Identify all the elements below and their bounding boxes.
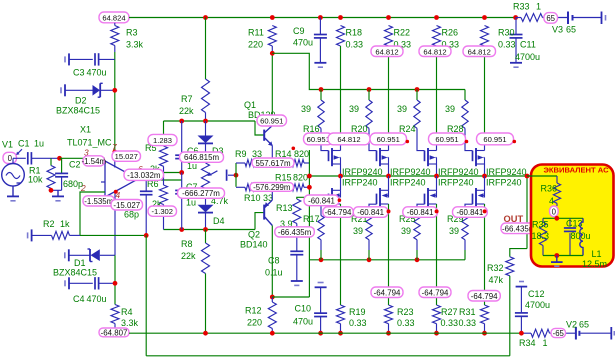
resistor R2 <box>31 229 33 241</box>
capacitor C11 <box>515 18 517 35</box>
svg-text:0.33: 0.33 <box>349 318 367 328</box>
resistor R17 39 gate lower <box>318 216 324 240</box>
V1 minus mark <box>17 182 22 184</box>
wire R22 to FET drain <box>388 46 390 144</box>
wire FET source to OUT bus <box>340 164 342 176</box>
R1-C2 ground <box>51 189 62 191</box>
svg-text:470u: 470u <box>87 68 107 78</box>
node -60.841 cell1 <box>304 195 339 206</box>
resistor R8 <box>205 230 207 244</box>
MOSFET IRFP9240 upper cell2 <box>369 144 377 151</box>
svg-text:-60.841: -60.841 <box>407 208 434 217</box>
svg-text:R30: R30 <box>498 28 515 38</box>
svg-text:1.283: 1.283 <box>153 136 172 145</box>
svg-text:C3: C3 <box>73 68 85 78</box>
bus junction R17 <box>319 257 324 262</box>
source V1 sine <box>2 164 25 187</box>
wire FET lower source down <box>484 204 486 305</box>
svg-text:820: 820 <box>293 172 308 182</box>
capacitor C13 <box>569 218 571 226</box>
svg-text:64.812: 64.812 <box>423 47 446 56</box>
svg-text:0: 0 <box>552 207 557 216</box>
capacitor C9 <box>319 18 321 35</box>
potentiometer X2 <box>202 163 210 189</box>
rail junction <box>203 331 208 336</box>
diode D3 <box>205 121 207 136</box>
MOSFET IRFP240 lower cell4 <box>484 176 486 190</box>
wire FET source to OUT bus <box>484 164 486 176</box>
V1 ground <box>12 186 14 196</box>
svg-text:-60.841: -60.841 <box>457 208 484 217</box>
svg-text:-65: -65 <box>553 329 565 338</box>
resistor R14 <box>292 160 304 167</box>
svg-text:557.617m: 557.617m <box>255 159 291 168</box>
resistor R24 39 gate upper <box>416 90 418 101</box>
svg-text:D4: D4 <box>213 216 225 226</box>
svg-text:220: 220 <box>248 40 263 50</box>
node -60.841 cell4 <box>453 207 488 218</box>
wire R5 top <box>163 121 165 134</box>
wire R11 junction to Q1 collector <box>271 53 273 125</box>
V3 ground <box>601 12 603 25</box>
node 0 label <box>3 152 17 163</box>
resistor R35 <box>542 218 544 222</box>
node -13.032m label <box>124 169 164 180</box>
svg-text:60.951: 60.951 <box>377 135 400 144</box>
capacitor C4 <box>68 277 70 289</box>
resistor R15 <box>292 184 304 191</box>
svg-text:0.33: 0.33 <box>459 318 477 328</box>
svg-text:-64.794: -64.794 <box>374 288 401 297</box>
rail junction <box>203 15 208 20</box>
svg-text:R19: R19 <box>349 307 366 317</box>
junction D2-column <box>112 88 117 93</box>
capacitor C6 <box>181 121 183 153</box>
svg-text:L1: L1 <box>592 249 602 259</box>
svg-text:BD140: BD140 <box>240 240 268 250</box>
junction wiper node <box>234 173 239 178</box>
svg-text:3.3k: 3.3k <box>126 40 144 50</box>
node 60.951 gate4 <box>477 133 514 145</box>
svg-text:64.812: 64.812 <box>337 135 360 144</box>
junction source-OUT <box>434 174 439 179</box>
svg-text:IRFP240: IRFP240 <box>486 178 522 188</box>
junction source resistor-rail <box>338 331 343 336</box>
svg-text:-1.535m: -1.535m <box>84 197 113 206</box>
svg-text:R35: R35 <box>532 219 549 229</box>
X2 wiper terminal <box>226 170 228 181</box>
svg-text:R11: R11 <box>248 28 264 38</box>
capacitor C10 <box>318 282 324 284</box>
wire FET lower source down <box>388 204 390 305</box>
MOSFET IRFP240 lower cell3 <box>436 176 438 190</box>
rail junction <box>386 15 391 20</box>
rail junction <box>513 15 518 20</box>
junction bias-C6 <box>179 119 184 124</box>
Q1 base wire <box>255 121 264 135</box>
svg-text:0.33: 0.33 <box>346 40 364 50</box>
svg-text:470u: 470u <box>87 294 107 304</box>
resistor R4 <box>111 305 119 324</box>
svg-text:IRFP240: IRFP240 <box>438 178 474 188</box>
bus junction R25 <box>415 257 420 262</box>
wire FET lower source down <box>340 204 342 305</box>
svg-text:-64.807: -64.807 <box>101 329 128 338</box>
resistor R20 39 gate upper <box>368 90 370 101</box>
svg-text:470u: 470u <box>293 317 313 327</box>
svg-text:22k: 22k <box>179 106 194 116</box>
node -64.794 label <box>323 207 354 218</box>
svg-text:-60.841: -60.841 <box>357 208 384 217</box>
wire OUT bus into box <box>527 175 557 177</box>
svg-text:C10: C10 <box>295 304 312 314</box>
MOSFET IRFP9240 upper cell1 <box>321 144 329 151</box>
junction source resistor-rail <box>386 331 391 336</box>
svg-text:2: 2 <box>80 183 86 193</box>
junction feedback-R2 <box>144 233 149 238</box>
svg-text:C12: C12 <box>528 289 545 299</box>
svg-text:1u: 1u <box>34 139 44 149</box>
label attach dot <box>338 198 342 202</box>
svg-text:3.3k: 3.3k <box>121 318 139 328</box>
label attach dot <box>387 209 391 213</box>
junction source-OUT <box>386 174 391 179</box>
Q1 emitter wire <box>271 146 273 164</box>
svg-text:D1: D1 <box>74 258 86 268</box>
wire R30 to FET drain <box>484 46 486 144</box>
resistor R29 39 gate lower <box>462 216 468 240</box>
svg-text:R13: R13 <box>276 203 293 213</box>
rail junction <box>338 15 343 20</box>
svg-text:0.33: 0.33 <box>498 40 516 50</box>
junction biasbot-C7 <box>179 227 184 232</box>
svg-text:7: 7 <box>112 142 117 152</box>
op-amp output wire <box>138 179 182 181</box>
svg-text:IRFP9240: IRFP9240 <box>390 167 431 177</box>
svg-text:4: 4 <box>549 196 554 206</box>
wire R26 to FET drain <box>436 46 438 144</box>
svg-text:R36: R36 <box>541 183 558 193</box>
OUT bus wire <box>309 175 557 177</box>
svg-text:68p: 68p <box>124 209 139 219</box>
svg-text:0.1u: 0.1u <box>265 268 283 278</box>
feedback left riser <box>145 235 147 355</box>
inductor L1 <box>580 218 583 255</box>
junction source resistor-rail <box>434 331 439 336</box>
wire rail to R7 <box>205 18 207 80</box>
pin 7 lead <box>114 152 116 168</box>
svg-text:64.812: 64.812 <box>375 47 398 56</box>
node 0 speaker label <box>550 206 559 217</box>
wire OUT branch <box>526 176 528 249</box>
svg-text:18.3: 18.3 <box>532 231 550 241</box>
bus junction R21 <box>367 257 372 262</box>
svg-text:4700u: 4700u <box>525 300 550 310</box>
node 646.815m label <box>180 152 224 162</box>
svg-text:64.824: 64.824 <box>102 14 125 23</box>
svg-text:BZX84C15: BZX84C15 <box>53 268 97 278</box>
svg-text:60.951: 60.951 <box>307 135 330 144</box>
svg-text:15.027: 15.027 <box>115 152 138 161</box>
svg-text:R18: R18 <box>346 28 363 38</box>
svg-text:IRFP240: IRFP240 <box>342 178 378 188</box>
svg-text:39: 39 <box>349 104 359 114</box>
node 64.812 under R22 <box>371 46 403 57</box>
resistor R25 39 gate lower <box>414 216 420 240</box>
resistor R36 <box>556 176 558 183</box>
battery V3 <box>567 12 569 25</box>
svg-text:R2: R2 <box>43 219 55 229</box>
speaker equivalent yellow box <box>531 165 614 267</box>
svg-text:1: 1 <box>543 338 548 348</box>
svg-text:0.33: 0.33 <box>441 318 459 328</box>
svg-text:R3: R3 <box>126 28 138 38</box>
node -60.841 cell3 <box>403 207 438 218</box>
svg-text:60.951: 60.951 <box>435 135 458 144</box>
svg-text:IRFP9240: IRFP9240 <box>342 167 383 177</box>
resistor R6 <box>163 173 165 186</box>
svg-text:R22: R22 <box>394 28 411 38</box>
resistor R31 0.33 <box>481 305 489 324</box>
positive rail wire <box>129 17 516 19</box>
svg-text:IRFP9240: IRFP9240 <box>438 167 479 177</box>
label attach dot <box>513 140 517 144</box>
svg-text:R26: R26 <box>442 28 459 38</box>
capacitor C7 <box>181 173 183 189</box>
node 557.617m label <box>252 158 294 167</box>
svg-text:-576.299m: -576.299m <box>253 183 290 192</box>
svg-text:R23: R23 <box>397 307 414 317</box>
resistor R22 0.33 <box>385 26 393 47</box>
svg-text:47k: 47k <box>489 275 504 285</box>
junction bias-D3 <box>203 119 208 124</box>
node 64.812 drain label <box>328 133 370 145</box>
svg-text:820: 820 <box>294 149 309 159</box>
svg-text:R10: R10 <box>244 193 261 203</box>
svg-text:1: 1 <box>536 2 541 12</box>
capacitor C12 <box>519 281 524 283</box>
svg-text:R7: R7 <box>181 94 193 104</box>
speaker ground <box>556 256 558 262</box>
rail junction <box>482 15 487 20</box>
svg-text:R33: R33 <box>513 2 530 12</box>
bus junction R24 <box>415 87 420 92</box>
wire R36 to RLC <box>556 217 558 219</box>
svg-text:ЭКВИВАЛЕНТ АС: ЭКВИВАЛЕНТ АС <box>544 166 610 175</box>
svg-text:X1: X1 <box>80 125 91 135</box>
junction line2-central <box>307 185 312 190</box>
rail junction <box>434 15 439 20</box>
svg-text:V1: V1 <box>2 140 13 150</box>
svg-text:BZX84C15: BZX84C15 <box>56 106 100 116</box>
RLC top bus <box>543 217 583 219</box>
wire FET source to OUT bus <box>388 164 390 176</box>
op-amp inner minus mark <box>101 181 105 183</box>
resistor R10 <box>245 184 257 191</box>
svg-text:C4: C4 <box>73 294 85 304</box>
node -576.299m label <box>250 183 294 192</box>
svg-text:39: 39 <box>301 104 311 114</box>
pin3 voltage label <box>83 156 105 166</box>
resistor R11 <box>268 26 276 47</box>
bus junction R20 <box>367 87 372 92</box>
resistor R18 0.33 <box>337 26 345 47</box>
svg-text:C11: C11 <box>520 40 536 50</box>
wiper riser wire <box>235 163 237 187</box>
svg-text:Q1: Q1 <box>244 100 256 110</box>
central node vertical <box>308 150 310 297</box>
RLC bottom bus <box>543 255 583 257</box>
svg-text:R4: R4 <box>121 307 133 317</box>
svg-text:TL071_MC: TL071_MC <box>67 138 112 148</box>
Q2 base wire <box>255 213 264 230</box>
Q2 collector wire <box>271 226 273 298</box>
svg-text:R15: R15 <box>275 172 292 182</box>
svg-text:-66.435m: -66.435m <box>278 228 312 237</box>
zener diode D2 <box>64 84 66 96</box>
resistor R9 <box>245 160 257 167</box>
node 60.9 clipped label <box>304 133 334 145</box>
svg-text:22k: 22k <box>181 251 196 261</box>
lower gate bus <box>309 259 465 261</box>
svg-text:IRFP240: IRFP240 <box>390 178 426 188</box>
junction C4-column <box>113 281 118 286</box>
svg-text:65: 65 <box>566 25 576 35</box>
MOSFET IRFP9240 upper cell4 <box>465 144 473 151</box>
svg-text:-64.794: -64.794 <box>325 208 352 217</box>
junction RLC top <box>554 216 559 221</box>
svg-text:R12: R12 <box>245 306 262 316</box>
svg-text:0: 0 <box>8 154 13 163</box>
svg-text:39: 39 <box>449 226 459 236</box>
resistor R21 39 gate lower <box>366 216 372 240</box>
node -666.277m label <box>178 188 225 198</box>
junction input node <box>57 156 62 161</box>
svg-text:C9: C9 <box>293 26 305 36</box>
junction source-OUT <box>338 174 343 179</box>
node 1.283 label <box>148 134 177 145</box>
resistor R23 0.33 <box>385 305 393 324</box>
svg-text:D2: D2 <box>75 96 87 106</box>
svg-text:C1: C1 <box>18 139 30 149</box>
node 60.951 Q1 label <box>257 115 287 126</box>
node -64.794 above R31 <box>468 291 500 302</box>
node -65 label <box>551 328 566 337</box>
svg-text:V3: V3 <box>552 25 563 35</box>
resistor R7 <box>202 79 210 113</box>
pin7 voltage label <box>112 151 141 161</box>
pin2 voltage label <box>83 196 115 206</box>
svg-text:65: 65 <box>546 14 555 23</box>
capacitor C8 <box>296 224 298 252</box>
svg-text:-1.54m: -1.54m <box>81 157 106 166</box>
feedback bottom wire <box>146 355 510 357</box>
resistor R12 <box>271 297 273 302</box>
resistor R26 0.33 <box>433 26 441 47</box>
junction OUT-central <box>307 174 312 179</box>
bus junction R16 <box>319 87 324 92</box>
negative rail wire <box>129 332 521 334</box>
bias bottom wire <box>164 229 256 231</box>
resistor R30 0.33 <box>481 26 489 47</box>
node 60.951 gate2 <box>370 133 407 145</box>
svg-text:60.951: 60.951 <box>483 135 506 144</box>
X2 wiper arrow <box>210 171 217 175</box>
label attach dot <box>435 209 439 213</box>
node -64.807 label <box>99 328 129 337</box>
svg-text:-60.841: -60.841 <box>308 196 335 205</box>
resistor R33 <box>516 17 521 19</box>
svg-text:R9: R9 <box>235 149 247 159</box>
resistor R32 <box>506 257 514 276</box>
node -66.435m OUT label <box>501 223 536 234</box>
zener diode D1 <box>68 249 70 261</box>
junction source resistor-rail <box>482 331 487 336</box>
node 64.824 label <box>99 12 129 23</box>
node 64.812 under R26 <box>419 46 451 57</box>
resistor R1 <box>50 158 52 165</box>
capacitor C5 68p <box>145 180 147 191</box>
node -64.794 above R27 <box>419 287 451 298</box>
capacitor C2 <box>61 158 63 173</box>
junction C10-rail <box>318 331 323 336</box>
svg-text:39: 39 <box>397 104 407 114</box>
transistor Q2 BD140 <box>263 205 265 220</box>
op-amp X1 TL071 triangle <box>105 161 138 197</box>
junction biasbot-D4 <box>203 227 208 232</box>
resistor R5 <box>163 134 165 146</box>
svg-text:-1.302: -1.302 <box>151 207 173 216</box>
svg-text:646.815m: 646.815m <box>184 153 220 162</box>
resistor R34 <box>521 332 531 334</box>
wire R3 to op-amp pin7 <box>114 46 116 53</box>
resistor R3 <box>111 26 119 46</box>
svg-text:65: 65 <box>579 319 589 329</box>
resistor R27 0.33 <box>433 305 441 324</box>
svg-text:39: 39 <box>445 104 455 114</box>
resistor R13 <box>297 197 310 199</box>
capacitor C1 <box>13 157 26 159</box>
svg-text:39: 39 <box>401 226 411 236</box>
wire pin4 column lower <box>114 255 116 304</box>
pin 4 lead <box>114 191 116 256</box>
svg-text:IRFP9240: IRFP9240 <box>486 167 527 177</box>
svg-text:10k: 10k <box>28 175 43 185</box>
label attach dot <box>465 140 469 144</box>
label attach dot <box>483 209 487 213</box>
svg-text:C8: C8 <box>268 256 280 266</box>
node -60.841 cell2 <box>353 207 388 218</box>
svg-text:220: 220 <box>247 318 262 328</box>
node -64.794 above R23 <box>371 287 403 298</box>
svg-text:60.951: 60.951 <box>260 117 283 126</box>
capacitor C3 <box>68 53 70 65</box>
svg-text:-64.794: -64.794 <box>471 292 498 301</box>
wire R18 to FET drain <box>340 46 342 144</box>
svg-text:-64.794: -64.794 <box>422 288 449 297</box>
svg-text:470u: 470u <box>293 37 313 47</box>
svg-text:39: 39 <box>353 226 363 236</box>
junction C6-C7 node <box>179 170 184 175</box>
pin4 voltage label <box>111 200 143 211</box>
svg-text:C2: C2 <box>69 160 81 170</box>
junction RLC bottom <box>554 253 559 258</box>
battery V2 <box>575 327 577 340</box>
Q2 emitter wire <box>271 187 273 200</box>
svg-text:-13.032m: -13.032m <box>127 171 161 180</box>
resistor R19 0.33 <box>337 305 345 324</box>
junction C12-R34-rail <box>519 331 524 336</box>
